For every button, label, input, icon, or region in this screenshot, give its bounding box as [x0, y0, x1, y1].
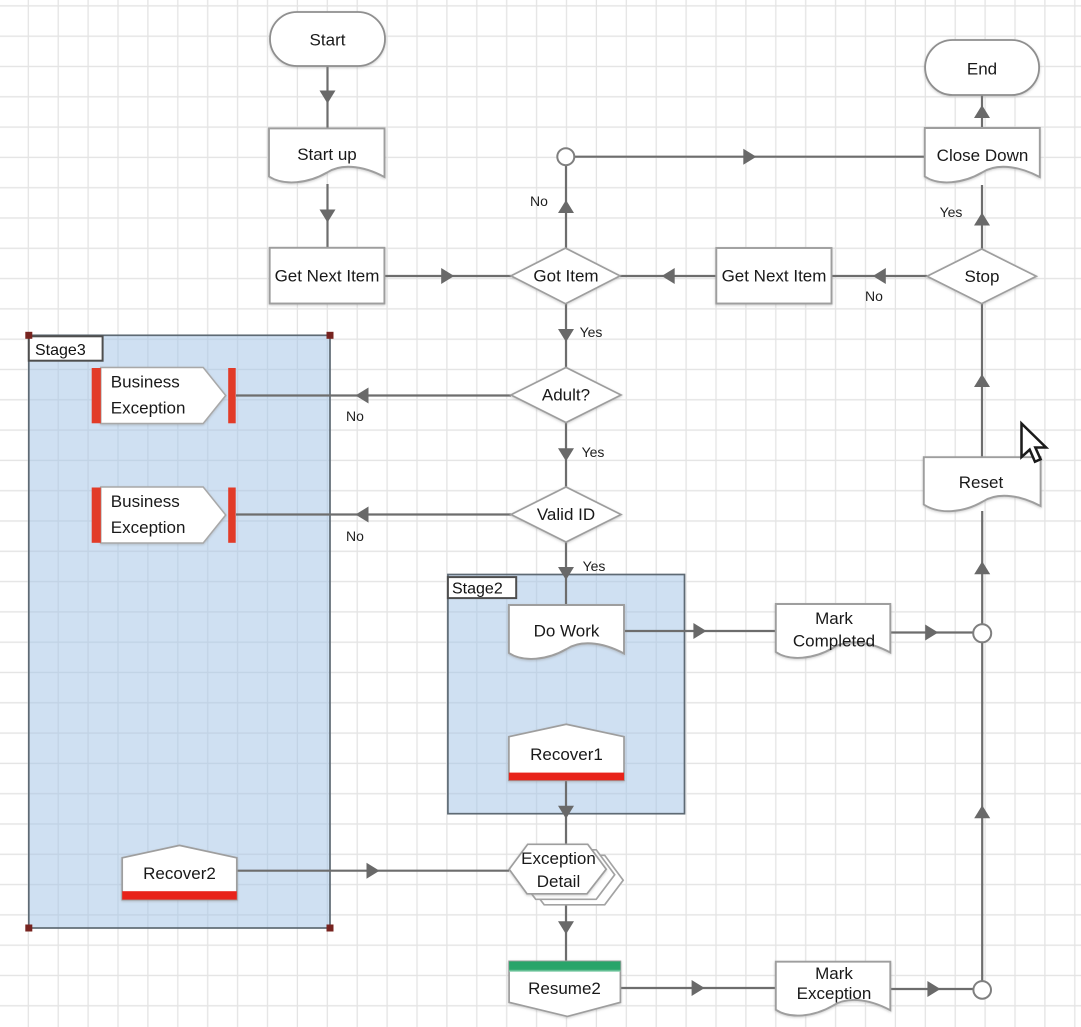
decision Stop: [927, 249, 1036, 304]
wire Do Work to Mark Completed: [624, 630, 776, 632]
arrowhead Valid ID to Business Exception 2: [356, 507, 369, 523]
arrowhead Mark Exception to node circle 3: [927, 981, 940, 997]
arrowhead Got Item to node circle: [558, 200, 574, 213]
node circle junction 3: [973, 981, 991, 999]
arrowhead Resume2 to Mark Exception: [692, 980, 705, 996]
exception Business Exception 1: [92, 368, 236, 424]
svg-text:Stop: Stop: [965, 267, 1000, 286]
arrowhead Adult to Business Exception 1: [356, 388, 369, 404]
handle Stage3 bottom-right: [327, 925, 334, 932]
arrowhead Start up to Get Next Item: [320, 210, 336, 223]
wire Start up to Get Next Item: [326, 184, 328, 248]
arrowhead Valid ID to Do Work: [558, 567, 574, 580]
node circle junction 2: [973, 624, 991, 642]
wire Recover2 to Exception Detail: [237, 870, 509, 872]
page Mark Completed: [776, 604, 891, 658]
exception Business Exception 2: [92, 487, 236, 543]
decision Adult: [511, 368, 621, 423]
calc Exception Detail stack: [509, 844, 623, 905]
arrowhead Recover1 to Exception Detail: [558, 806, 574, 819]
wire node circle 2 up to Reset: [981, 511, 983, 624]
wire Start to Start up: [326, 66, 328, 128]
arrowhead Stop to Get Next Item 2: [873, 268, 886, 284]
svg-text:Reset: Reset: [959, 473, 1004, 492]
svg-text:Business: Business: [111, 373, 180, 392]
handle Stage3 top-right: [327, 332, 334, 339]
wire Exception Detail to Resume2: [565, 894, 567, 962]
svg-text:Exception: Exception: [111, 399, 186, 418]
svg-text:No: No: [530, 193, 548, 209]
label box Stage2: [448, 577, 516, 598]
wire Reset up to Stop: [981, 304, 983, 458]
svg-text:Get Next Item: Get Next Item: [722, 267, 827, 286]
handle Stage3 top-left: [25, 332, 32, 339]
wire Got Item to Adult: [565, 304, 567, 368]
decision Valid ID: [511, 487, 621, 542]
svg-text:No: No: [346, 408, 364, 424]
process Get Next Item 2: [716, 248, 831, 304]
page Close Down: [925, 128, 1040, 182]
arrowhead node circle to Close Down: [743, 149, 756, 165]
svg-text:Recover1: Recover1: [530, 745, 603, 764]
svg-text:Got Item: Got Item: [533, 267, 598, 286]
recover Recover2: [122, 845, 237, 899]
wire Valid ID to Do Work: [565, 542, 567, 605]
arrowhead Close Down to End: [974, 105, 990, 118]
svg-text:Yes: Yes: [940, 204, 963, 220]
svg-text:Adult?: Adult?: [542, 386, 590, 405]
block Stage3: [29, 335, 330, 928]
page Mark Exception: [776, 962, 891, 1016]
arrowhead Start to Start up: [320, 91, 336, 104]
svg-text:Exception: Exception: [111, 518, 186, 537]
page Do Work: [509, 605, 624, 659]
svg-text:Yes: Yes: [583, 558, 606, 574]
wire Stop to Close Down: [981, 185, 983, 249]
arrowhead Mark Completed to node circle 2: [925, 625, 938, 641]
arrowhead Get Next Item 2 to Got Item: [662, 268, 675, 284]
svg-text:Do Work: Do Work: [534, 622, 600, 641]
wire Mark Completed to node circle 2: [890, 631, 973, 633]
wire Close Down to End: [981, 95, 983, 128]
svg-text:No: No: [865, 288, 883, 304]
svg-text:Start: Start: [310, 31, 346, 50]
svg-text:Exception: Exception: [797, 984, 872, 1003]
svg-text:Yes: Yes: [582, 444, 605, 460]
wire node circle 3 up to node circle 2: [981, 642, 983, 981]
arrowhead Exception Detail to Resume2: [558, 921, 574, 934]
wire Adult to Business Exception 1: [236, 394, 511, 396]
arrowhead Reset to Stop: [974, 374, 990, 387]
decision Got Item: [511, 248, 620, 304]
svg-text:Detail: Detail: [537, 872, 580, 891]
svg-text:Stage3: Stage3: [35, 342, 86, 359]
arrowhead Adult to Valid ID: [558, 448, 574, 461]
terminator End: [925, 40, 1039, 95]
arrowhead Do Work to Mark Completed: [693, 623, 706, 639]
arrowhead node circle 2 to Reset: [974, 561, 990, 574]
arrowhead Recover2 to Exception Detail: [367, 863, 380, 879]
svg-text:Yes: Yes: [580, 324, 603, 340]
wire Mark Exception to node circle 3: [890, 988, 973, 990]
page Reset: [924, 457, 1041, 511]
arrowhead Got Item to Adult: [558, 329, 574, 342]
svg-text:End: End: [967, 60, 997, 79]
wire Recover1 to Exception Detail: [565, 780, 567, 844]
block Stage2: [448, 575, 685, 814]
process Get Next Item: [270, 248, 385, 304]
svg-text:Mark: Mark: [815, 964, 853, 983]
svg-text:Close Down: Close Down: [937, 146, 1029, 165]
wire Got Item to node circle: [565, 166, 567, 249]
page Start up: [269, 128, 385, 182]
svg-text:No: No: [346, 528, 364, 544]
wire Stop to Get Next Item 2: [832, 275, 928, 277]
mouse cursor: [1022, 424, 1047, 462]
label box Stage3: [29, 336, 103, 360]
node circle junction top: [557, 148, 574, 165]
svg-text:Completed: Completed: [793, 632, 875, 651]
handle Stage3 bottom-left: [25, 925, 32, 932]
svg-text:Recover2: Recover2: [143, 864, 216, 883]
svg-text:Mark: Mark: [815, 609, 853, 628]
wire Adult to Valid ID: [565, 423, 567, 488]
recover Recover1: [509, 724, 624, 780]
svg-text:Stage2: Stage2: [452, 581, 503, 598]
wire Get Next Item 2 to Got Item: [620, 275, 716, 277]
arrowhead node circle 3 to node circle 2: [974, 805, 990, 818]
wire node circle to Close Down: [575, 156, 925, 158]
svg-text:Exception: Exception: [521, 849, 596, 868]
svg-text:Resume2: Resume2: [528, 979, 601, 998]
wire Valid ID to Business Exception 2: [236, 513, 511, 515]
svg-text:Start up: Start up: [297, 145, 357, 164]
arrowhead Get Next Item to Got Item: [441, 268, 454, 284]
terminator Start: [270, 12, 385, 66]
arrowhead Stop to Close Down: [974, 213, 990, 226]
svg-text:Get Next Item: Get Next Item: [275, 267, 380, 286]
wire Resume2 to Mark Exception: [620, 987, 775, 989]
wire Get Next Item to Got Item: [384, 275, 511, 277]
svg-text:Valid ID: Valid ID: [537, 505, 595, 524]
resume Resume2: [509, 961, 620, 1016]
svg-text:Business: Business: [111, 492, 180, 511]
